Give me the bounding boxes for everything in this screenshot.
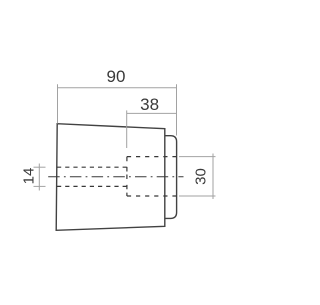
hidden hole dia30 bottom dashed line — [127, 195, 177, 197]
tick bottom of dim 14 — [34, 185, 46, 187]
extension line left of dim 38 — [126, 110, 128, 148]
dimension line 14 (vertical, left) — [38, 164, 40, 191]
hidden hole dia30 left end dashed line — [126, 157, 128, 196]
svg-text:14: 14 — [21, 168, 38, 185]
extension line bottom of dim 30 — [179, 195, 216, 197]
extension line right shared by dims 90 and 38 — [176, 84, 178, 135]
extension line left of dim 90 — [57, 84, 59, 123]
dimension line 38 — [127, 112, 177, 114]
centerline dash-dot — [48, 176, 183, 178]
part outline: right end cap with rounded corners — [165, 136, 177, 219]
svg-text:90: 90 — [107, 67, 126, 86]
extension line top of dim 30 — [179, 156, 216, 158]
dimension line 90 — [58, 87, 177, 89]
hidden hole dia14 top dashed line — [57, 166, 127, 168]
part outline: tapered cone body — [56, 124, 165, 231]
hidden hole dia14 bottom dashed line — [57, 185, 127, 187]
dimension line 30 (vertical, right) — [212, 154, 214, 200]
svg-text:30: 30 — [193, 168, 210, 185]
tick top of dim 14 — [34, 166, 46, 168]
svg-text:38: 38 — [140, 95, 159, 114]
hidden hole dia30 top dashed line — [127, 156, 177, 158]
